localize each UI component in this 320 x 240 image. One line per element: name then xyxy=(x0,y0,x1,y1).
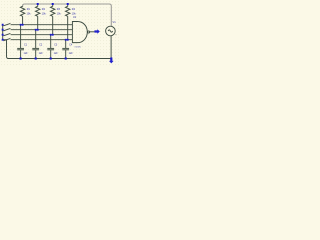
resistor R3 label and value xyxy=(57,8,62,16)
wire net line 4 xyxy=(11,39,73,41)
svg-text:V1: V1 xyxy=(113,20,117,24)
capacitor C1 label and value xyxy=(24,43,29,55)
source V1 circle xyxy=(106,26,116,58)
svg-text:7420N: 7420N xyxy=(74,47,81,49)
wire left switch bus xyxy=(3,25,9,59)
wire top bus (selected, gray) from R1 top to source V1 top xyxy=(23,4,112,26)
junction dot pair node 2 xyxy=(35,29,39,31)
switch J4 xyxy=(3,38,10,40)
capacitor C3 label and value xyxy=(54,43,59,55)
wire net line 1 (switch S1 to gate input 1) xyxy=(11,24,73,26)
svg-text:U1: U1 xyxy=(73,15,77,19)
resistor R2 label and value xyxy=(42,8,47,16)
capacitor C1 with wire to line 1 and ground bus xyxy=(17,25,24,59)
resistor R3 xyxy=(51,5,55,35)
junction dots on left switch bus xyxy=(2,24,4,41)
svg-text:1uF: 1uF xyxy=(54,52,59,55)
wire bottom ground bus xyxy=(8,58,112,60)
op-amp U1 4-input NAND gate body xyxy=(72,22,94,43)
switch J2 xyxy=(3,28,10,30)
resistor R4 label and value xyxy=(72,8,77,16)
node ground arrow flag below bottom bus xyxy=(109,59,114,63)
wire net line 2 xyxy=(11,29,73,31)
resistor R1 label and value xyxy=(27,8,32,16)
wire net line 3 xyxy=(11,34,73,36)
capacitor C4 xyxy=(62,40,69,59)
junction dot pair node 4 xyxy=(65,39,69,41)
switch J1 xyxy=(3,23,10,25)
capacitor C2 xyxy=(32,30,39,59)
resistor R2 xyxy=(36,5,40,30)
svg-text:1uF: 1uF xyxy=(69,52,74,55)
capacitor C4 label and value xyxy=(69,43,74,55)
resistor R1 xyxy=(20,6,24,25)
junction dots on top bus xyxy=(37,3,69,5)
svg-text:1uF: 1uF xyxy=(24,52,29,55)
resistor R4 xyxy=(66,5,70,40)
svg-text:1uF: 1uF xyxy=(39,52,44,55)
junction dot pair node 3 xyxy=(50,34,54,36)
background xyxy=(0,0,120,66)
node OUT arrow flag at gate output xyxy=(94,29,99,34)
capacitor C2 label and value xyxy=(39,43,44,55)
capacitor C3 xyxy=(47,35,54,59)
switch J3 xyxy=(3,33,10,35)
junction dot pair node 1 xyxy=(20,24,24,26)
junction dots on bottom bus xyxy=(20,57,113,59)
